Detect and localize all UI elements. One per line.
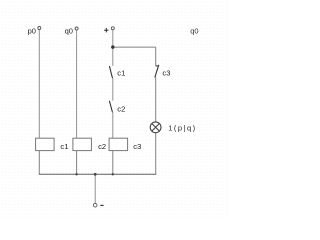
coil c3 [109,138,141,151]
terminal minus [93,203,103,207]
wire: + rail mid [112,78,114,101]
wire: bottom bus [39,173,156,175]
wire: right rail lower [155,133,157,175]
wire: + rail lower [112,112,114,138]
wire: + rail to bus [112,151,114,175]
wire: q0 rail lower [76,151,78,175]
svg-text:c1: c1 [60,142,68,151]
wire: right rail upper [155,47,157,66]
svg-text:q0: q0 [65,26,73,35]
svg-text:c1: c1 [117,69,125,78]
contact c3 (NC) [155,65,171,78]
svg-text:p0: p0 [28,26,36,35]
coil c1 [36,138,69,151]
wire: p0 rail upper [38,30,40,138]
wire: minus drop [94,174,96,203]
coil c2 [73,138,106,151]
svg-text:c3: c3 [133,142,141,151]
wire: q0 rail upper [76,30,78,138]
wire: + rail upper [112,30,114,66]
svg-text:q0: q0 [190,27,198,36]
grid dots [0,0,229,220]
contact c2 (NO) [109,101,125,113]
wire: p0 rail lower [38,151,40,175]
terminal p0 [28,26,41,35]
node junction bus/minus [94,173,97,176]
wire: right rail mid [155,77,157,122]
svg-text:c3: c3 [162,69,170,78]
node junction on + rail [111,45,114,48]
node junction bus/q0 [75,173,77,175]
terminal + [104,27,114,33]
node junction bus/+ [112,173,114,175]
contact c1 (NO) [109,66,125,78]
lamp 1(p|q) [150,122,196,133]
svg-text:1(p|q): 1(p|q) [168,123,196,132]
wire: top horizontal branch [113,46,156,48]
svg-text:c2: c2 [98,142,106,151]
svg-text:c2: c2 [117,104,125,113]
terminal q0 [65,26,79,35]
